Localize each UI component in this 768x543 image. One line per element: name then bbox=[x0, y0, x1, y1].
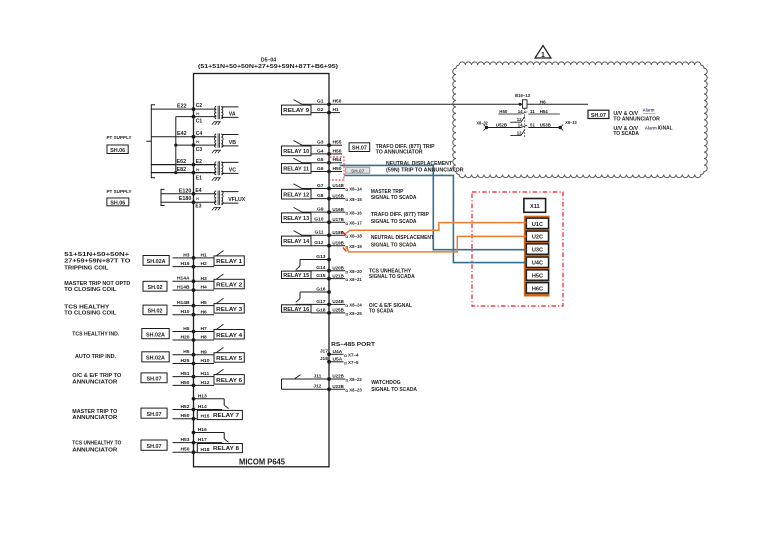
terminal stub U21B X8&#8211;21 bbox=[329, 273, 362, 283]
svg-text:E120: E120 bbox=[179, 188, 192, 194]
relay RELAY 15 bbox=[282, 254, 331, 281]
svg-text:H25: H25 bbox=[181, 358, 190, 364]
svg-text:U4A: U4A bbox=[333, 349, 343, 355]
svg-text:27+59+59N+87T TO: 27+59+59N+87T TO bbox=[64, 258, 130, 264]
svg-text:H50: H50 bbox=[181, 413, 190, 419]
svg-text:U22B: U22B bbox=[332, 374, 344, 380]
svg-text:G15: G15 bbox=[316, 273, 326, 279]
svg-text:NEUTRAL DISPLACEMENT: NEUTRAL DISPLACEMENT bbox=[386, 161, 453, 167]
svg-text:H14A: H14A bbox=[177, 276, 190, 282]
svg-text:J12: J12 bbox=[313, 384, 321, 390]
svg-text:X8–15: X8–15 bbox=[349, 197, 362, 203]
sheet ref SH.06 box 1 bbox=[107, 145, 128, 154]
svg-text:G1: G1 bbox=[317, 99, 324, 105]
svg-text:E4: E4 bbox=[195, 188, 201, 194]
blue wire H50 to U4C bbox=[344, 175, 526, 262]
wire E42 to VT VB primary bbox=[151, 136, 216, 138]
svg-text:U17B: U17B bbox=[332, 217, 344, 223]
svg-text:U4C: U4C bbox=[532, 261, 543, 267]
svg-text:TO ANNUNCIATOR: TO ANNUNCIATOR bbox=[613, 117, 660, 123]
watchdog contact bbox=[282, 373, 331, 391]
wire C3 from VB primary to common bbox=[176, 144, 216, 146]
svg-text:RELAY 4: RELAY 4 bbox=[216, 333, 243, 339]
aux contact row 2 with X8-32 X8-33 bbox=[476, 120, 577, 130]
wire E62 to VT VC primary bbox=[151, 164, 216, 166]
relay RELAY 16 bbox=[282, 286, 331, 314]
ground VA bbox=[212, 122, 221, 125]
svg-text:H3: H3 bbox=[201, 276, 208, 282]
svg-text:U53B: U53B bbox=[540, 123, 551, 128]
warning triangle 1 bbox=[535, 46, 551, 59]
svg-text:H5: H5 bbox=[201, 300, 208, 306]
svg-text:NEUTRAL DISPLACEMENT: NEUTRAL DISPLACEMENT bbox=[371, 235, 435, 241]
svg-text:G16: G16 bbox=[316, 286, 326, 292]
svg-text:PT SUPPLY: PT SUPPLY bbox=[107, 189, 133, 195]
svg-text:X8–16: X8–16 bbox=[349, 210, 362, 216]
svg-text:X7–4: X7–4 bbox=[348, 353, 359, 359]
bracket PT supply group bbox=[151, 105, 155, 178]
svg-text:U14B: U14B bbox=[332, 183, 344, 189]
svg-text:14: 14 bbox=[518, 123, 523, 128]
relay RELAY 7 bbox=[173, 393, 243, 420]
terminal stub U18B X8&#8211;18 bbox=[329, 230, 362, 240]
svg-text:H1: H1 bbox=[333, 107, 340, 113]
svg-text:G4: G4 bbox=[317, 148, 324, 154]
svg-text:E180: E180 bbox=[179, 196, 192, 202]
svg-text:U16B: U16B bbox=[332, 207, 344, 213]
sheet ref SH.07 in cloud bbox=[588, 110, 609, 118]
node E62 on left bus bbox=[192, 163, 196, 167]
svg-text:H15: H15 bbox=[201, 414, 210, 420]
svg-text:H50: H50 bbox=[333, 99, 342, 105]
svg-text:G9: G9 bbox=[317, 207, 324, 213]
svg-text:H55: H55 bbox=[333, 140, 342, 146]
svg-text:U15B: U15B bbox=[332, 193, 344, 199]
svg-text:H16: H16 bbox=[198, 427, 207, 433]
svg-text:X8–33: X8–33 bbox=[565, 120, 577, 125]
aux relay linkage dashed bbox=[524, 108, 526, 137]
node E82 on left bus bbox=[192, 171, 196, 175]
svg-text:G5: G5 bbox=[317, 157, 324, 163]
terminal stub U15B X8&#8211;15 bbox=[329, 193, 362, 203]
svg-text:SH.07: SH.07 bbox=[147, 412, 162, 418]
svg-text:51+51N+50+50N+: 51+51N+50+50N+ bbox=[64, 252, 129, 258]
svg-text:C2: C2 bbox=[196, 103, 203, 109]
svg-text:H10: H10 bbox=[181, 309, 190, 315]
svg-text:Ω: Ω bbox=[345, 379, 348, 383]
svg-text:H7: H7 bbox=[201, 326, 208, 332]
relay RELAY 1 bbox=[173, 251, 245, 269]
terminal stub U22B X8&#8211;22 bbox=[329, 374, 362, 384]
red arrowhead X8-18 bbox=[342, 231, 346, 235]
svg-text:H52: H52 bbox=[181, 404, 190, 410]
connector X11 bbox=[524, 199, 546, 213]
svg-text:E2: E2 bbox=[196, 159, 202, 165]
svg-text:SH.07: SH.07 bbox=[352, 146, 367, 152]
svg-text:PT SUPPLY: PT SUPPLY bbox=[107, 135, 133, 141]
svg-text:SIGNAL TO SCADA: SIGNAL TO SCADA bbox=[369, 274, 415, 280]
svg-text:ANNUNCIATOR: ANNUNCIATOR bbox=[72, 447, 117, 453]
svg-text:G8: G8 bbox=[317, 193, 324, 199]
svg-text:VC: VC bbox=[229, 168, 236, 174]
terminal stub U14B X8&#8211;14 bbox=[329, 183, 362, 193]
svg-text:C4: C4 bbox=[196, 131, 203, 137]
terminal stub U25B X8&#8211;25 bbox=[329, 308, 362, 318]
wire VT common return vertical bbox=[175, 117, 177, 173]
svg-text:Ω: Ω bbox=[345, 389, 348, 393]
node E120 on left bus bbox=[192, 192, 196, 196]
wire E180 to VT VFLUX return bbox=[161, 201, 216, 203]
svg-text:G12: G12 bbox=[314, 240, 324, 246]
node E22 on left bus bbox=[192, 107, 196, 111]
svg-text:RELAY 15: RELAY 15 bbox=[283, 273, 310, 279]
svg-text:Ω: Ω bbox=[345, 235, 348, 239]
svg-text:SH.02: SH.02 bbox=[148, 309, 163, 315]
svg-text:X8–19: X8–19 bbox=[349, 244, 362, 250]
connector U1C bbox=[526, 218, 548, 228]
sheet ref SH.02 box bbox=[143, 305, 167, 315]
aux contact row 1 bbox=[498, 109, 560, 114]
node E42 on left bus bbox=[192, 135, 196, 139]
svg-text:AUTO TRIP IND.: AUTO TRIP IND. bbox=[75, 354, 117, 360]
svg-text:H14: H14 bbox=[198, 404, 207, 410]
svg-text:SH.07: SH.07 bbox=[147, 444, 162, 450]
svg-text:U19B: U19B bbox=[332, 240, 344, 246]
svg-text:MICOM P645: MICOM P645 bbox=[239, 458, 286, 467]
wire E120 to VT VFLUX primary bbox=[161, 193, 216, 195]
svg-text:TO CLOSING COIL: TO CLOSING COIL bbox=[64, 311, 117, 317]
svg-text:H54: H54 bbox=[333, 157, 342, 163]
connector U2C bbox=[526, 231, 548, 241]
svg-text:H3: H3 bbox=[183, 252, 190, 258]
grayed sheet ref SH.07 relay11 bbox=[346, 167, 370, 173]
svg-text:Ω: Ω bbox=[345, 270, 348, 274]
svg-text:RELAY 9: RELAY 9 bbox=[283, 108, 310, 114]
node C3 on left bus bbox=[192, 143, 196, 147]
svg-text:H50: H50 bbox=[333, 166, 342, 172]
svg-text:SIGNAL TO SCADA: SIGNAL TO SCADA bbox=[371, 243, 417, 249]
svg-text:ANNUNCIATOR: ANNUNCIATOR bbox=[72, 415, 117, 421]
svg-text:H20: H20 bbox=[181, 334, 190, 340]
svg-text:(51+51N+50+50N+27+59+59N+87T+B: (51+51N+50+50N+27+59+59N+87T+B6+95) bbox=[198, 64, 338, 70]
svg-text:RELAY 11: RELAY 11 bbox=[283, 167, 310, 173]
svg-text:H50: H50 bbox=[181, 380, 190, 386]
wire E82 to VT VC return bbox=[151, 172, 216, 174]
terminal stub U23B X8&#8211;23 bbox=[329, 384, 362, 394]
svg-text:Ω: Ω bbox=[345, 198, 348, 202]
aux contact 12 lower bbox=[510, 130, 524, 136]
terminal stub U16B X8&#8211;16 bbox=[329, 207, 362, 217]
svg-text:X8–14: X8–14 bbox=[349, 187, 362, 193]
junction common C3 bbox=[174, 144, 177, 147]
svg-text:B16–13: B16–13 bbox=[515, 93, 531, 98]
terminal J17 bbox=[329, 353, 344, 355]
svg-text:Ω: Ω bbox=[344, 354, 347, 358]
svg-text:RELAY 7: RELAY 7 bbox=[213, 413, 239, 419]
ground VC bbox=[212, 178, 221, 181]
svg-text:H11: H11 bbox=[201, 371, 210, 377]
svg-text:U20B: U20B bbox=[332, 265, 344, 271]
svg-text:H5: H5 bbox=[183, 326, 190, 332]
svg-text:U52B: U52B bbox=[496, 123, 507, 128]
svg-text:12: 12 bbox=[517, 130, 522, 135]
terminal stub U20B X8&#8211;20 bbox=[329, 265, 362, 275]
svg-text:H50: H50 bbox=[181, 447, 190, 453]
svg-text:U25B: U25B bbox=[332, 308, 344, 314]
svg-text:Alarm: Alarm bbox=[643, 108, 655, 113]
svg-text:RS–485 PORT: RS–485 PORT bbox=[331, 342, 376, 348]
svg-text:E82: E82 bbox=[177, 167, 187, 173]
svg-text:H9: H9 bbox=[201, 349, 208, 355]
svg-text:G6: G6 bbox=[317, 166, 324, 172]
orange connector group highlight bbox=[524, 216, 550, 297]
svg-text:U21B: U21B bbox=[332, 273, 344, 279]
alarm cloud boundary bbox=[453, 62, 707, 178]
svg-text:G2: G2 bbox=[317, 107, 324, 113]
svg-text:SH.06: SH.06 bbox=[110, 200, 125, 206]
svg-text:H1: H1 bbox=[201, 253, 208, 259]
wire E22 to VT VA primary bbox=[151, 108, 216, 110]
svg-text:U24B: U24B bbox=[332, 299, 344, 305]
annotation U/V O/V alarm to annunciator bbox=[613, 108, 660, 123]
aux relay coil B16-13 bbox=[515, 93, 588, 108]
svg-text:RELAY 12: RELAY 12 bbox=[283, 192, 309, 198]
svg-text:H12: H12 bbox=[201, 380, 210, 386]
stub H1 bbox=[329, 112, 340, 114]
svg-text:SH.07: SH.07 bbox=[351, 168, 365, 174]
orange wire X8-18 to U1C bbox=[346, 223, 527, 234]
svg-text:TCS HEALTHY IND.: TCS HEALTHY IND. bbox=[72, 332, 120, 338]
sheet ref SH.07 relay10 bbox=[349, 143, 370, 152]
ground VFLUX bbox=[212, 207, 221, 210]
VT VA bbox=[215, 106, 217, 119]
junction common E82 bbox=[174, 171, 177, 174]
relay RELAY 4 bbox=[173, 324, 245, 342]
sheet ref SH.07 box bbox=[141, 408, 167, 418]
svg-text:IGNAL: IGNAL bbox=[658, 126, 674, 132]
svg-text:H6C: H6C bbox=[532, 286, 543, 292]
svg-text:RELAY 3: RELAY 3 bbox=[216, 307, 243, 313]
bracket VFLUX supply group bbox=[161, 189, 165, 205]
svg-text:H6: H6 bbox=[540, 99, 546, 104]
svg-text:RELAY 13: RELAY 13 bbox=[283, 216, 310, 222]
terminal J18 bbox=[329, 361, 344, 363]
svg-text:G13: G13 bbox=[316, 254, 326, 260]
svg-text:H4: H4 bbox=[201, 285, 208, 291]
svg-text:G10: G10 bbox=[314, 217, 324, 223]
annotation U/V O/V alarm signal to scada bbox=[613, 126, 673, 137]
svg-text:U1C: U1C bbox=[532, 222, 543, 228]
svg-text:(59N) TRIP TO ANNUNCIATOR: (59N) TRIP TO ANNUNCIATOR bbox=[386, 167, 464, 173]
svg-text:G3: G3 bbox=[317, 140, 324, 146]
pointer from PT SUPPLY label bbox=[146, 140, 151, 142]
svg-text:X7–5: X7–5 bbox=[348, 360, 359, 366]
wire C1 from VA primary to common bbox=[176, 116, 216, 118]
svg-text:X8–20: X8–20 bbox=[349, 269, 362, 275]
svg-text:G18: G18 bbox=[316, 307, 326, 313]
stub H54 relay11 bbox=[329, 162, 342, 164]
svg-text:Ω: Ω bbox=[345, 313, 348, 317]
svg-text:SIGNAL TO SCADA: SIGNAL TO SCADA bbox=[371, 387, 417, 393]
stub H50 relay10 bbox=[329, 153, 342, 155]
sheet ref SH.02A box bbox=[142, 329, 169, 339]
svg-text:SH.06: SH.06 bbox=[110, 148, 125, 154]
relay RELAY 10 bbox=[282, 140, 331, 156]
relay RELAY 11 bbox=[282, 157, 331, 173]
svg-text:G7: G7 bbox=[317, 183, 324, 189]
svg-text:Ω: Ω bbox=[345, 212, 348, 216]
svg-text:U18B: U18B bbox=[332, 230, 344, 236]
svg-text:Ω: Ω bbox=[345, 188, 348, 192]
svg-text:RELAY 10: RELAY 10 bbox=[283, 149, 309, 155]
svg-text:H18: H18 bbox=[201, 447, 210, 453]
svg-text:G17: G17 bbox=[316, 299, 326, 305]
svg-text:U3C: U3C bbox=[532, 248, 543, 254]
relay RELAY 12 bbox=[282, 183, 331, 201]
svg-text:TO ANNUNCIATOR: TO ANNUNCIATOR bbox=[376, 149, 423, 155]
svg-text:J17: J17 bbox=[320, 349, 328, 355]
svg-text:X8–21: X8–21 bbox=[349, 277, 362, 283]
svg-text:VB: VB bbox=[229, 140, 236, 146]
aux contact 12 upper bbox=[510, 117, 524, 123]
svg-text:H10: H10 bbox=[201, 358, 210, 364]
svg-text:TRIPPING COIL: TRIPPING COIL bbox=[64, 265, 109, 271]
terminal stub U19B X8&#8211;19 bbox=[329, 240, 362, 250]
VT VB bbox=[214, 134, 216, 147]
svg-text:TCS HEALTHY: TCS HEALTHY bbox=[64, 305, 110, 311]
sheet ref SH.02A box bbox=[143, 256, 169, 266]
svg-text:11: 11 bbox=[530, 109, 535, 114]
terminal stub U24B X8&#8211;24 bbox=[329, 299, 362, 309]
svg-text:VFLUX: VFLUX bbox=[228, 197, 246, 203]
svg-text:E62: E62 bbox=[177, 159, 187, 165]
sheet ref SH.02A box bbox=[142, 352, 169, 362]
svg-text:X8–22: X8–22 bbox=[349, 377, 362, 383]
svg-text:X8–25: X8–25 bbox=[349, 311, 362, 317]
connector H5C bbox=[526, 270, 548, 280]
svg-text:RELAY 8: RELAY 8 bbox=[213, 446, 240, 452]
svg-text:J11: J11 bbox=[314, 373, 322, 379]
relay RELAY 3 bbox=[173, 298, 245, 316]
svg-text:SIGNAL TO SCADA: SIGNAL TO SCADA bbox=[371, 219, 417, 225]
sheet ref SH.07 box bbox=[141, 373, 167, 383]
svg-text:H16: H16 bbox=[181, 261, 190, 267]
svg-text:H5C: H5C bbox=[532, 274, 543, 280]
svg-text:H54: H54 bbox=[540, 109, 549, 114]
svg-text:SH.07: SH.07 bbox=[147, 377, 162, 383]
svg-text:O/C & E/F TRIP TO: O/C & E/F TRIP TO bbox=[72, 373, 121, 379]
svg-text:H14B: H14B bbox=[177, 285, 190, 291]
svg-text:RELAY 2: RELAY 2 bbox=[216, 283, 242, 289]
svg-text:TO SCADA: TO SCADA bbox=[613, 131, 639, 137]
svg-text:TCS UNHEALTHY TO: TCS UNHEALTHY TO bbox=[72, 441, 121, 447]
svg-text:VA: VA bbox=[229, 112, 236, 118]
connector U4C bbox=[526, 257, 548, 267]
svg-text:U23B: U23B bbox=[332, 384, 344, 390]
svg-text:J18: J18 bbox=[320, 356, 328, 362]
svg-text:WATCHDOG: WATCHDOG bbox=[371, 380, 401, 386]
terminal stub U17B X8&#8211;17 bbox=[329, 217, 362, 227]
node E180 on left bus bbox=[192, 200, 196, 204]
svg-text:Ω: Ω bbox=[345, 304, 348, 308]
svg-text:G11: G11 bbox=[315, 230, 324, 236]
svg-text:G14: G14 bbox=[316, 265, 326, 271]
sheet ref SH.02 box bbox=[143, 281, 167, 291]
svg-text:U2C: U2C bbox=[532, 235, 543, 241]
relay RELAY 2 bbox=[173, 274, 245, 292]
node C1 on left bus bbox=[192, 115, 196, 119]
stub H50 relay11b bbox=[329, 171, 342, 173]
svg-text:X8–17: X8–17 bbox=[349, 220, 362, 226]
svg-text:RELAY 1: RELAY 1 bbox=[216, 259, 243, 265]
svg-text:C3: C3 bbox=[196, 147, 203, 153]
wire H50 from relay 9 into alarm cloud bbox=[329, 103, 523, 105]
svg-text:X8–32: X8–32 bbox=[476, 121, 488, 126]
svg-text:H5: H5 bbox=[183, 349, 190, 355]
svg-text:SH.02A: SH.02A bbox=[146, 333, 165, 339]
VT VFLUX bbox=[214, 191, 216, 205]
svg-text:E3: E3 bbox=[195, 204, 201, 210]
svg-text:RELAY 6: RELAY 6 bbox=[216, 378, 243, 384]
svg-text:RELAY 16: RELAY 16 bbox=[283, 307, 310, 313]
svg-text:ANNUNCIATOR: ANNUNCIATOR bbox=[72, 380, 117, 386]
svg-text:H2: H2 bbox=[201, 261, 208, 267]
svg-text:E22: E22 bbox=[177, 103, 187, 109]
svg-text:SH.07: SH.07 bbox=[591, 113, 606, 119]
relay RELAY 6 bbox=[173, 369, 245, 387]
svg-text:51: 51 bbox=[530, 123, 535, 128]
svg-text:X8–18: X8–18 bbox=[349, 234, 362, 240]
stub H55 bbox=[329, 144, 342, 146]
svg-text:SIGNAL TO SCADA: SIGNAL TO SCADA bbox=[371, 195, 417, 201]
svg-text:H8: H8 bbox=[201, 335, 208, 341]
svg-text:X8–23: X8–23 bbox=[349, 388, 362, 394]
sheet ref SH.07 box bbox=[141, 440, 167, 450]
svg-text:X8–24: X8–24 bbox=[349, 303, 362, 309]
svg-text:H6: H6 bbox=[201, 309, 208, 315]
svg-text:12: 12 bbox=[517, 117, 522, 122]
svg-text:C1: C1 bbox=[196, 119, 203, 125]
svg-text:H17: H17 bbox=[198, 437, 207, 443]
ground VB bbox=[212, 150, 221, 153]
red revision dashed box bbox=[472, 192, 563, 306]
svg-text:TO CLOSING COIL: TO CLOSING COIL bbox=[64, 287, 117, 293]
svg-text:Ω: Ω bbox=[344, 361, 347, 365]
relay RELAY 8 bbox=[173, 427, 243, 454]
svg-text:SH.02: SH.02 bbox=[148, 285, 163, 291]
MICOM P645 enclosure box bbox=[194, 74, 330, 467]
svg-text:SH.02A: SH.02A bbox=[146, 356, 165, 362]
sheet ref SH.06 box 2 bbox=[107, 198, 129, 206]
svg-text:E42: E42 bbox=[177, 131, 187, 137]
VT VC bbox=[215, 162, 217, 175]
svg-text:14: 14 bbox=[518, 109, 523, 114]
svg-text:D5–04: D5–04 bbox=[261, 58, 276, 64]
relay RELAY 9 bbox=[282, 99, 331, 115]
svg-text:RELAY 5: RELAY 5 bbox=[216, 356, 243, 362]
svg-text:H50: H50 bbox=[499, 109, 508, 114]
svg-text:1: 1 bbox=[541, 52, 545, 59]
svg-text:TO SCADA: TO SCADA bbox=[369, 308, 394, 314]
svg-text:Ω: Ω bbox=[345, 278, 348, 282]
relay RELAY 14 bbox=[282, 230, 331, 248]
relay RELAY 13 bbox=[282, 207, 331, 225]
blue wire H54 to U3C bbox=[340, 165, 527, 249]
svg-text:H50: H50 bbox=[333, 148, 342, 154]
svg-text:Ω: Ω bbox=[345, 222, 348, 226]
red arrowhead X8-19 bbox=[343, 248, 346, 252]
svg-text:H13: H13 bbox=[198, 393, 207, 399]
